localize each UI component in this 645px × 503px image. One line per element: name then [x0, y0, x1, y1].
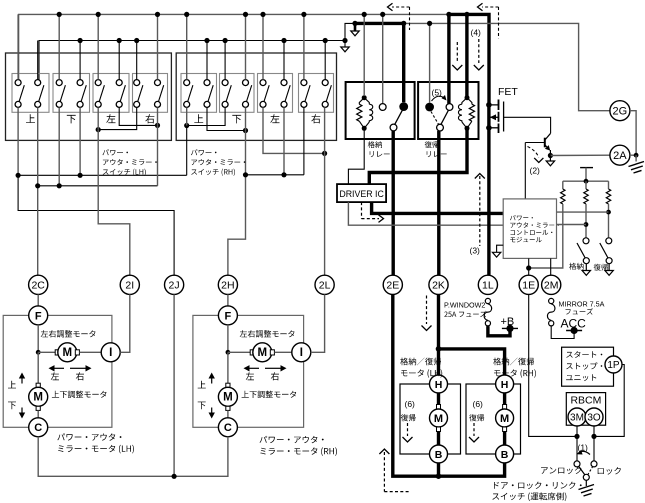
svg-text:2L: 2L: [319, 280, 331, 292]
connector 2E: [383, 275, 402, 294]
module right pin to R2 line: [557, 224, 587, 226]
wire LH 下R down: [79, 107, 81, 175]
wire node to vertical motor: [37, 352, 39, 385]
node on thick B+ line with off-page triangle: [352, 21, 357, 26]
switch cell 上: [12, 74, 49, 113]
dashed arrow up near rail: [379, 449, 389, 454]
wire LH 下L down: [58, 107, 60, 185]
switch cell 左: [93, 74, 129, 113]
wire 3M down: [576, 426, 578, 461]
wire R1 to 1E node: [529, 204, 563, 268]
wire top bus to storage relay coil: [363, 14, 365, 96]
wire 2M fuse to ACC: [551, 326, 574, 338]
svg-text:3M: 3M: [570, 412, 584, 423]
label 左右調整モータ RH: [240, 330, 295, 337]
svg-text:2J: 2J: [169, 280, 180, 292]
wire top bus to storage relay N.O. contact: [382, 14, 384, 103]
wire net-A horizontal (to 2J common): [18, 174, 187, 176]
wire 1P to 3O node: [594, 365, 624, 437]
transistor Q1: [544, 138, 546, 148]
svg-text:2A: 2A: [613, 150, 627, 162]
label 復帰リレー: [425, 141, 439, 148]
wire 2E down to bottom rail (thick): [393, 294, 505, 476]
svg-text:B: B: [435, 449, 443, 461]
wire R2 down to 格納 switch: [585, 204, 587, 238]
wire RH net horizontal: [246, 174, 304, 176]
return relay blade: [441, 111, 448, 125]
connector 2I: [120, 275, 139, 294]
node RH 右R wire: [322, 151, 327, 156]
svg-text:RBCM: RBCM: [570, 394, 601, 406]
dashed arrow below 2K: [426, 296, 428, 325]
store/return motor LH block: [400, 384, 461, 454]
wire 3O down: [593, 426, 595, 461]
wire FET source to 1L (thick): [487, 105, 490, 275]
dashed off-page arrow left (top middle): [409, 7, 411, 30]
svg-text:(4): (4): [471, 28, 482, 38]
connector 3M: [568, 408, 586, 426]
wire LH 右R down to net-2C: [157, 125, 159, 185]
svg-text:ACC: ACC: [561, 317, 587, 331]
RBCM box: [566, 393, 605, 426]
svg-text:(2): (2): [530, 166, 541, 176]
FET drain node: [486, 102, 492, 108]
dashed off-page arrow left (top right): [498, 7, 500, 39]
switch cell 右: [133, 74, 168, 113]
arrows 左右 LH: [55, 367, 65, 369]
svg-text:(6): (6): [473, 399, 484, 409]
terminal F LH: [29, 306, 48, 325]
wire node to horizontal motor: [38, 351, 57, 353]
node branch to RH motor: [436, 346, 442, 352]
wire RH 左R down to net: [283, 107, 285, 174]
return relay 復帰リレー box: [418, 82, 478, 139]
label switch LH: [103, 149, 129, 155]
connector 2M: [542, 275, 561, 294]
link RH 左L to 右R wire: [263, 107, 325, 153]
wire LH 上L down: [17, 107, 19, 175]
wire LH 右R contact to node: [157, 107, 159, 125]
wire 1L fuse to +B (thick): [488, 326, 510, 336]
terminal F RH: [218, 306, 237, 325]
wire B+ feed line to relays and 2G: [345, 23, 355, 40]
ground below door lock switch: [585, 480, 587, 486]
wire LH 左L to 2I: [98, 130, 130, 276]
svg-text:2H: 2H: [221, 280, 234, 292]
arrows 左右 RH: [250, 367, 260, 369]
+B symbol: [502, 327, 518, 329]
svg-text:H: H: [435, 379, 443, 391]
wire return relay coil to DRIVER IC (thick): [369, 128, 467, 184]
wire 2H to F RH: [227, 294, 229, 306]
label switch RH: [191, 149, 217, 155]
wire branch to RH motor H (thick): [439, 349, 505, 375]
wire thick B+ to storage relay common contact: [402, 23, 405, 102]
svg-text:2I: 2I: [125, 280, 134, 292]
label 左右調整モータ LH: [41, 330, 96, 337]
off-page triangle below emitter: [549, 156, 551, 162]
svg-text:2C: 2C: [31, 280, 45, 292]
wire DRIVER IC to module (thick): [372, 202, 504, 213]
connector 2K: [429, 275, 448, 294]
svg-text:1P: 1P: [607, 360, 620, 371]
connector 1E: [519, 275, 538, 294]
dashed arrow (3): [475, 174, 485, 179]
connector 2C: [29, 275, 48, 294]
svg-text:2K: 2K: [432, 280, 445, 292]
wire 1E down to 3M node: [529, 294, 577, 436]
resistor R3: [608, 181, 610, 189]
wire node to vertical motor RH: [227, 352, 229, 385]
door lock link switch: [574, 461, 580, 467]
svg-text:M: M: [63, 347, 73, 359]
power outer mirror switch LH box: [6, 53, 172, 140]
power outer mirror motor RH box: [193, 315, 304, 427]
wire top bus to return relay coil (thick): [465, 14, 468, 97]
wire line to 2G: [403, 23, 610, 110]
wire motor LH B to rail: [437, 463, 440, 476]
wire LH 左L contact to node: [97, 107, 99, 129]
switch cell 右: [299, 74, 334, 113]
svg-text:C: C: [224, 422, 232, 434]
label 格納リレー: [368, 141, 382, 148]
power outer mirror motor LH box: [3, 315, 112, 427]
resistor R1: [562, 181, 564, 189]
DRIVER IC box: [337, 184, 386, 202]
FET source lead with arrow: [489, 116, 499, 118]
link LH 左L to 右L: [98, 107, 137, 129]
svg-text:+B: +B: [501, 316, 515, 328]
return relay coil: [465, 95, 470, 100]
wire 2J to rail: [173, 294, 175, 476]
node LH 右R: [155, 123, 160, 128]
connector 1L: [478, 275, 497, 294]
wire R3 down to 復帰 switch: [608, 204, 610, 237]
wire B+ line to return relay fixed contact: [429, 23, 431, 102]
FET gate wire to transistor: [504, 117, 551, 133]
terminal I LH: [101, 343, 120, 362]
wire second supply bus: [39, 41, 345, 80]
terminal C LH: [29, 418, 48, 437]
connector 2J: [165, 275, 184, 294]
switch cell 下: [53, 74, 90, 113]
up-down adjust motor RH: [226, 383, 230, 387]
wire F to motor node: [37, 325, 39, 352]
supply bar: [580, 167, 593, 169]
svg-text:M: M: [500, 413, 509, 425]
transistor base wire to module: [524, 143, 526, 199]
label パワー・アウタ・ミラー・モータ (LH): [57, 433, 121, 440]
svg-text:M: M: [223, 392, 233, 404]
switch cell 上: [181, 74, 217, 113]
left-right adjust motor RH: [250, 350, 254, 355]
storage relay 格納リレー box: [346, 82, 415, 139]
svg-text:MIRROR 7.5A: MIRROR 7.5A: [559, 300, 605, 309]
labels unlock/lock: [541, 467, 581, 475]
connector 2G: [610, 101, 630, 121]
storage manual switch 格納: [583, 238, 589, 244]
wire RH 右R down to 2L: [324, 107, 326, 275]
wire 2K down to motors (thick): [437, 294, 440, 375]
node LH 左L: [96, 127, 101, 132]
svg-text:FET: FET: [498, 86, 518, 98]
svg-text:1L: 1L: [482, 280, 494, 292]
wire RH 上L contact to node: [186, 107, 188, 125]
label 上下調整モータ LH: [52, 391, 107, 398]
module ground stub: [497, 245, 504, 252]
link LH 左R to 右R wire: [119, 107, 157, 125]
wire thick B+ segment: [355, 22, 403, 25]
dashed arrow (4) left: [456, 42, 458, 63]
link RH 上L to 下L: [187, 107, 225, 125]
dashed arrow from DRIVER IC: [361, 202, 363, 219]
wire node to horizontal motor RH: [228, 351, 253, 353]
terminal I RH: [292, 343, 311, 362]
terminal C RH: [218, 418, 237, 437]
connector 3O: [585, 408, 603, 426]
return manual switch 復帰: [606, 238, 612, 244]
wire thick top bus segment to FET drain: [449, 14, 489, 105]
storage relay common contact: [399, 102, 408, 111]
storage relay coil: [362, 95, 367, 100]
module pin to 2M: [550, 258, 552, 275]
svg-text:I: I: [109, 347, 112, 359]
label 上下調整モータ RH: [242, 391, 297, 398]
storage relay fixed contact open: [379, 104, 386, 111]
ACC symbol: [566, 330, 582, 332]
svg-text:F: F: [225, 310, 232, 322]
wire storage relay to 2E (thick): [392, 131, 395, 275]
switch feed wires from buses: [17, 14, 19, 79]
node RH 上L: [184, 123, 189, 128]
power outer mirror switch RH box: [176, 53, 336, 140]
connector 2A: [610, 145, 630, 165]
svg-text:M: M: [434, 413, 443, 425]
power outer mirror control module box: [503, 199, 556, 259]
svg-text:M: M: [258, 347, 268, 359]
wire storage coil to DRIVER IC: [348, 128, 364, 184]
wire DRIVER IC to module (signal): [348, 202, 503, 225]
label door lock link switch: [494, 482, 582, 490]
svg-text:2E: 2E: [386, 280, 399, 292]
arrows 上下 LH: [21, 379, 23, 384]
wire thick top bus to return relay open contact: [447, 14, 450, 103]
label 格納／復帰モータ (LH): [400, 358, 441, 366]
svg-text:B: B: [501, 449, 509, 461]
connector 2H: [218, 275, 237, 294]
wire emitter to 2A: [550, 154, 610, 156]
wire LH 上R down to 2C: [37, 107, 39, 275]
resistor R2: [585, 181, 587, 189]
storage relay blade: [395, 110, 403, 124]
storage relay moving contact: [390, 124, 397, 131]
svg-text:2M: 2M: [544, 280, 559, 292]
wire 2C to F: [37, 294, 39, 306]
wire RH 右L up from net: [303, 107, 305, 174]
dashed arrow (4) right: [478, 39, 480, 63]
return relay fixed contact closed: [425, 103, 434, 112]
ground right: [635, 155, 637, 161]
label 格納／復帰モータ (RH): [493, 358, 534, 366]
node on second bus with off-page triangle: [342, 38, 347, 43]
connector 1P: [605, 356, 622, 373]
svg-text:1E: 1E: [522, 280, 535, 292]
FET symbol: [489, 100, 499, 105]
return relay alternate blade dashed: [431, 112, 439, 125]
svg-text:M: M: [33, 392, 43, 404]
arrows 上下 RH: [211, 379, 213, 384]
node RH 下R: [243, 128, 248, 133]
svg-text:3O: 3O: [587, 412, 601, 423]
wire I to 2L: [311, 294, 325, 352]
svg-text:P.WINDOW2: P.WINDOW2: [444, 301, 485, 310]
module pin to 1E: [528, 258, 530, 275]
left-right adjust motor LH: [55, 350, 59, 355]
wire RH 下R down to 2H: [228, 131, 246, 276]
connector 2L: [315, 275, 334, 294]
svg-text:(6): (6): [405, 399, 416, 409]
svg-text:2G: 2G: [613, 106, 628, 118]
FET source node: [486, 125, 492, 131]
link RH 上R to 下R wire: [207, 107, 246, 130]
svg-text:C: C: [34, 422, 42, 434]
svg-text:(3): (3): [470, 246, 481, 256]
svg-text:DRIVER IC: DRIVER IC: [339, 189, 384, 199]
wire return relay to 2K (thick): [437, 131, 440, 275]
wire common bottom rail: [38, 437, 228, 477]
label パワー・アウタ・ミラー・モータ (RH): [260, 436, 324, 443]
emitter node: [548, 153, 553, 158]
up-down adjust motor LH: [36, 383, 40, 387]
svg-text:H: H: [501, 379, 509, 391]
module right pin to R3 line: [557, 211, 609, 213]
start stop unit box: [562, 347, 614, 386]
return relay moving contact: [437, 124, 444, 131]
wire top supply bus: [19, 14, 449, 79]
store/return motor RH block: [466, 384, 521, 454]
wire I to 2I: [120, 294, 130, 352]
svg-text:I: I: [300, 347, 303, 359]
wire net-A to 2J: [18, 175, 174, 275]
svg-text:F: F: [35, 310, 42, 322]
return relay open contact: [446, 104, 453, 111]
wire RH 下R contact to node: [245, 107, 247, 130]
wire F to node RH: [227, 325, 229, 352]
wire net-2C horizontal: [38, 185, 158, 187]
wire 2G to 2A to ground: [630, 111, 636, 156]
resistor rail: [563, 180, 609, 182]
switch cell 下: [220, 74, 255, 113]
switch cell 左: [258, 74, 293, 113]
